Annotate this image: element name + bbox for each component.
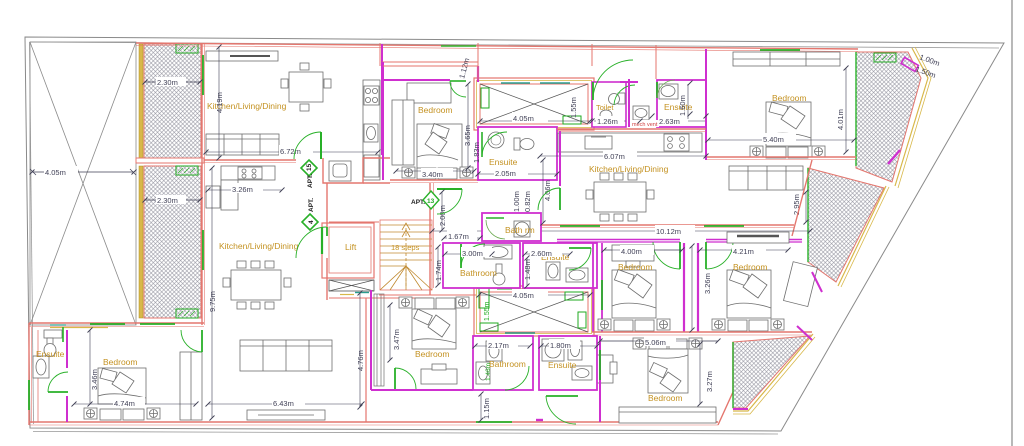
toilet room bbox=[592, 82, 626, 127]
bedrooms bottom wall bbox=[592, 331, 812, 333]
svg-text:15: 15 bbox=[306, 163, 313, 171]
dim 3.27m vertical bbox=[699, 344, 701, 404]
svg-text:18 steps: 18 steps bbox=[391, 243, 420, 252]
svg-text:Ensuite: Ensuite bbox=[548, 360, 577, 370]
bed B bbox=[727, 270, 771, 318]
bathroom (bottom) bbox=[473, 336, 533, 390]
toilet door arc bbox=[614, 85, 635, 105]
apt13 entry door bbox=[437, 188, 462, 190]
svg-text:Bathroom: Bathroom bbox=[460, 268, 497, 278]
bedroom top closet bbox=[382, 61, 478, 63]
bedroomE entry door bbox=[201, 330, 203, 352]
dim 1.67m bbox=[444, 237, 480, 239]
wardrobe along top bbox=[733, 52, 840, 66]
svg-text:2.63m: 2.63m bbox=[659, 117, 680, 126]
svg-text:Bedroom: Bedroom bbox=[772, 93, 807, 103]
svg-text:Bedroom: Bedroom bbox=[733, 262, 768, 272]
strip2 dim 2.30m bbox=[145, 199, 200, 201]
toilet bbox=[514, 138, 534, 150]
svg-text:Kitchen/Living/Dining: Kitchen/Living/Dining bbox=[219, 241, 299, 251]
top-right terrace T1 bbox=[856, 52, 921, 182]
dim 6.43m bbox=[208, 403, 362, 405]
bedroom D door bbox=[394, 368, 396, 389]
ensuite mid door bbox=[569, 247, 591, 249]
living bottom wall bbox=[540, 224, 794, 226]
bed drawers apt2 bbox=[750, 146, 825, 158]
left yard bbox=[30, 42, 136, 325]
planter bench bbox=[619, 407, 716, 423]
hall wall right apt bbox=[559, 131, 561, 186]
bedroom D bottom wall bbox=[371, 389, 473, 391]
wardrobe bbox=[180, 352, 202, 420]
svg-text:1.46m: 1.46m bbox=[485, 363, 492, 381]
left hatch strip 1 bbox=[139, 44, 201, 158]
door arc bathroom bottom bbox=[505, 366, 529, 390]
apt4 entry door bbox=[326, 227, 328, 236]
desk bedroom A bbox=[612, 245, 654, 261]
dim 4.00m bbox=[604, 249, 682, 251]
svg-text:4.21m: 4.21m bbox=[733, 247, 754, 256]
basin bbox=[488, 132, 504, 148]
wall x=706 bbox=[705, 49, 707, 160]
bottom-left apt top wall bbox=[29, 322, 204, 324]
svg-text:2.17m: 2.17m bbox=[488, 341, 509, 350]
magenta sill bottom-right bbox=[733, 408, 748, 410]
svg-text:4.05m: 4.05m bbox=[513, 114, 534, 123]
svg-text:1.15m: 1.15m bbox=[482, 398, 491, 419]
building top edge bbox=[136, 43, 858, 49]
svg-text:3.47m: 3.47m bbox=[392, 329, 401, 350]
svg-text:4.06m: 4.06m bbox=[543, 180, 552, 201]
svg-text:4.05m: 4.05m bbox=[513, 291, 534, 300]
dim 4.06m vertical bbox=[542, 160, 544, 223]
svg-text:Kitchen/Living/Dining: Kitchen/Living/Dining bbox=[589, 164, 669, 174]
dining table apt4 bbox=[223, 261, 291, 309]
svg-text:6.07m: 6.07m bbox=[604, 152, 625, 161]
ensuite (mid) bbox=[523, 243, 597, 288]
door arcs corridor bbox=[679, 242, 681, 269]
door arc ensuite1 bbox=[481, 132, 483, 157]
dim 5.06m bbox=[600, 340, 718, 342]
svg-text:Bedroom: Bedroom bbox=[418, 105, 453, 115]
dim 4.74m bbox=[74, 403, 196, 405]
dim 3.46m vertical bbox=[89, 330, 91, 404]
bed E bbox=[98, 368, 146, 404]
entrance door bbox=[546, 395, 578, 397]
dim 1.26m bbox=[594, 120, 626, 122]
svg-text:4.74m: 4.74m bbox=[114, 399, 135, 408]
dim 4.21m bbox=[700, 249, 788, 251]
dim 1.15m vertical bbox=[480, 394, 482, 420]
svg-text:2.00m: 2.00m bbox=[438, 205, 447, 226]
apt15 bottom wall w/ door bbox=[204, 159, 296, 161]
kitchen wall apt15 right bbox=[381, 44, 383, 155]
svg-text:3.27m: 3.27m bbox=[705, 371, 714, 392]
red connectors top band bbox=[477, 43, 479, 80]
dim 9.75m vertical bbox=[211, 168, 213, 418]
dim 3.26m bbox=[208, 189, 282, 191]
svg-text:3.65m: 3.65m bbox=[463, 125, 472, 146]
desk bedroom D bbox=[421, 369, 457, 384]
tv bench bbox=[247, 410, 325, 420]
terrace yellow border bbox=[895, 48, 928, 186]
svg-text:Bedroom: Bedroom bbox=[648, 393, 683, 403]
Bath rm box bbox=[482, 213, 541, 241]
drawers row top bbox=[399, 297, 469, 309]
door arc bathroom bbox=[460, 244, 462, 268]
kitchen counter top wall bbox=[206, 51, 278, 61]
shaft2 (bottom) bbox=[474, 286, 594, 336]
walls around bedroom D bbox=[365, 298, 367, 422]
svg-text:1.55m: 1.55m bbox=[569, 97, 578, 118]
dim 4.76m vertical bbox=[359, 293, 361, 407]
dim 10.12m bbox=[432, 230, 810, 232]
dim 1.74m vertical bbox=[437, 247, 439, 285]
svg-text:1.67m: 1.67m bbox=[448, 232, 469, 241]
svg-text:1.60m: 1.60m bbox=[678, 95, 687, 116]
door arc bottom-left bbox=[48, 391, 68, 393]
site boundary second bottom bbox=[33, 432, 778, 435]
svg-text:3.26m: 3.26m bbox=[703, 273, 712, 294]
ensuite fixtures bbox=[33, 330, 62, 378]
kitchen counter L bbox=[206, 166, 275, 210]
mid wc room bbox=[620, 79, 649, 127]
svg-text:Bedroom: Bedroom bbox=[618, 262, 653, 272]
sheet edge line bbox=[1011, 0, 1013, 446]
dim 1.30m bbox=[541, 345, 597, 347]
site boundary inner top bbox=[30, 42, 999, 48]
svg-text:0.82m: 0.82m bbox=[523, 191, 532, 212]
svg-text:APT.: APT. bbox=[307, 174, 314, 188]
sofa apt15 bbox=[206, 134, 279, 155]
svg-text:2.05m: 2.05m bbox=[495, 169, 516, 178]
dim 2.60m bbox=[525, 253, 570, 255]
drawers row bbox=[84, 408, 160, 420]
building bottom edge bbox=[29, 421, 718, 423]
dim 5.06m redraw bbox=[600, 340, 718, 342]
dining table apt15 bbox=[281, 63, 331, 111]
site boundary inner left bbox=[30, 42, 34, 424]
door apt15 bbox=[320, 132, 322, 159]
svg-text:1.83m: 1.83m bbox=[472, 142, 481, 163]
svg-text:Bathroom: Bathroom bbox=[489, 359, 526, 369]
dim 2.05m bbox=[478, 173, 557, 175]
svg-text:3.26m: 3.26m bbox=[232, 185, 253, 194]
dim 1.60m vertical bbox=[687, 84, 689, 119]
green window segments bbox=[29, 50, 800, 422]
dim 3.65m vertical bbox=[467, 84, 469, 168]
divider wall bbox=[136, 158, 204, 163]
svg-text:Ensuite: Ensuite bbox=[36, 349, 65, 359]
sofa right apt bbox=[729, 166, 803, 190]
dim 3.26m vertical bbox=[691, 246, 693, 330]
svg-text:Bedroom: Bedroom bbox=[415, 349, 450, 359]
sofa apt4 bbox=[240, 340, 332, 371]
bedroom C drawers row bbox=[633, 338, 702, 349]
bed D horizontal bbox=[412, 309, 456, 349]
svg-text:10.12m: 10.12m bbox=[656, 227, 681, 236]
hall door arc bbox=[592, 82, 594, 100]
bedroom terrace door arc (apt13) bbox=[450, 80, 466, 82]
bottom right step bbox=[718, 342, 733, 425]
kitchen counter bbox=[558, 133, 702, 152]
dim 1.48m vertical bbox=[526, 258, 528, 286]
svg-text:3.46m: 3.46m bbox=[90, 369, 99, 390]
svg-text:4: 4 bbox=[308, 220, 315, 224]
bed apt2 bbox=[766, 102, 811, 146]
svg-text:1.48m: 1.48m bbox=[523, 259, 532, 280]
dimension ticks bbox=[30, 45, 857, 423]
svg-text:3.00m: 3.00m bbox=[462, 249, 483, 258]
bedroom C left wall bbox=[599, 336, 601, 422]
bedroom A walls bbox=[592, 243, 594, 332]
stairs bbox=[380, 220, 432, 290]
svg-text:Lift: Lift bbox=[345, 242, 357, 252]
corridor step walls bbox=[323, 158, 390, 183]
dim 5.40m bbox=[708, 139, 854, 141]
svg-text:Bath rm: Bath rm bbox=[505, 225, 535, 235]
corridor bottom wall segments bbox=[557, 239, 680, 241]
svg-text:6.43m: 6.43m bbox=[273, 399, 294, 408]
rotated desk at terrace bbox=[784, 262, 818, 307]
ensuite2 bbox=[657, 80, 706, 127]
right slant wall bbox=[792, 160, 812, 236]
wardrobe strip bedroom D bbox=[374, 294, 384, 386]
wall under cores bbox=[429, 183, 431, 288]
building left wall mid apt bbox=[201, 163, 203, 325]
mech vent bbox=[631, 120, 659, 127]
left hatch strip 2 bbox=[139, 166, 201, 318]
bedroom walls bbox=[382, 62, 384, 180]
svg-text:4.05m: 4.05m bbox=[45, 168, 66, 177]
svg-text:6.72m: 6.72m bbox=[280, 147, 301, 156]
svg-text:4.19m: 4.19m bbox=[215, 92, 224, 113]
svg-text:1.26m: 1.26m bbox=[597, 117, 618, 126]
svg-text:2.30m: 2.30m bbox=[157, 78, 178, 87]
magenta piece at terrace bbox=[797, 326, 812, 340]
dim 6.07m bbox=[540, 155, 706, 157]
svg-text:4.00m: 4.00m bbox=[621, 247, 642, 256]
svg-text:4.01m: 4.01m bbox=[836, 109, 845, 130]
dim 6.72m bbox=[206, 151, 378, 153]
bedroom C bed bbox=[648, 349, 688, 393]
svg-text:5.40m: 5.40m bbox=[763, 135, 784, 144]
yard dim 4.05m bbox=[30, 169, 136, 175]
svg-text:4.76m: 4.76m bbox=[356, 350, 365, 371]
wardrobe bedroom apt13 bbox=[392, 100, 414, 165]
dim 2.00m vertical bbox=[441, 192, 443, 230]
strip1 dim 2.30m bbox=[145, 81, 200, 83]
apt15 corner counter bbox=[329, 161, 351, 181]
svg-text:5.06m: 5.06m bbox=[645, 338, 666, 347]
dim 3.40m bbox=[396, 170, 474, 172]
svg-text:APT.: APT. bbox=[308, 198, 315, 212]
dim 2.95m vertical bbox=[805, 192, 807, 222]
wall between ensuite and bedroom bbox=[66, 330, 68, 368]
dim 4.19m vertical bbox=[218, 47, 220, 158]
window green top bbox=[441, 45, 476, 47]
wardrobe corridor bbox=[727, 232, 789, 243]
svg-text:mech vent: mech vent bbox=[632, 122, 658, 128]
dim 4.01m vertical green line bbox=[845, 68, 847, 152]
magenta sill on terrace border bbox=[888, 150, 900, 164]
dining table right apt bbox=[586, 173, 654, 221]
mid-right terrace T2 bbox=[808, 168, 884, 282]
svg-text:Bedroom: Bedroom bbox=[103, 357, 138, 367]
dim 3.00m bbox=[445, 253, 492, 255]
desk bedroom C bbox=[597, 355, 617, 383]
svg-text:9.75m: 9.75m bbox=[208, 291, 217, 312]
svg-text:Ensuite: Ensuite bbox=[489, 157, 518, 167]
corridor left wall segments bbox=[326, 183, 328, 227]
kitchen appliance strip bbox=[363, 80, 380, 180]
svg-text:1.74m: 1.74m bbox=[434, 260, 443, 281]
dim 2.63m bbox=[657, 120, 706, 122]
svg-text:13: 13 bbox=[427, 198, 435, 205]
apt2 bedroom bottom wall bbox=[706, 156, 856, 158]
svg-text:3.40m: 3.40m bbox=[422, 170, 443, 179]
ensuite (bottom) bbox=[539, 336, 597, 390]
svg-text:1.00m: 1.00m bbox=[512, 191, 521, 212]
bed drawers bbox=[402, 167, 473, 179]
bed A bbox=[612, 270, 656, 318]
bottom-right terrace T3 bbox=[733, 336, 810, 408]
svg-text:1.55m: 1.55m bbox=[484, 301, 491, 321]
dim 3.47m vertical bbox=[389, 305, 391, 360]
toilet green lintels top wall bbox=[90, 323, 125, 325]
bathroom (mid) bbox=[443, 243, 520, 288]
dim 4.00m redraw bbox=[604, 249, 682, 251]
building left wall top apt bbox=[201, 43, 203, 163]
shaft1 (top) bbox=[474, 78, 594, 130]
dim 2.17m bbox=[475, 345, 530, 347]
magenta corner piece bbox=[901, 57, 918, 71]
window sill pieces bbox=[50, 327, 108, 329]
bed apt13 bbox=[417, 124, 462, 169]
lift bbox=[322, 223, 374, 295]
bottom-left apt left wall bbox=[28, 323, 30, 425]
svg-text:2.60m: 2.60m bbox=[531, 249, 552, 258]
svg-text:2.30m: 2.30m bbox=[157, 196, 178, 205]
svg-text:1.80m: 1.80m bbox=[550, 341, 571, 350]
top wall under ensuite cluster bbox=[557, 128, 706, 130]
svg-text:Toilet: Toilet bbox=[596, 103, 614, 112]
